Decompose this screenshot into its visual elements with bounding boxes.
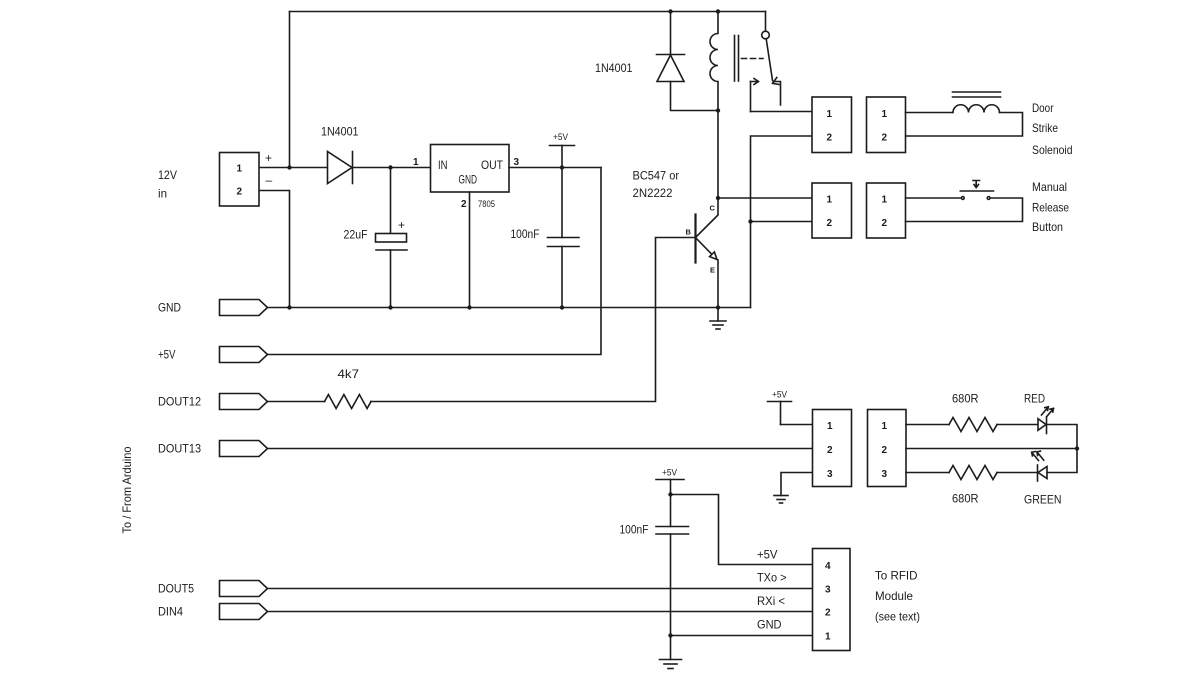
- relay switch blade: [766, 39, 772, 81]
- wire J7 pin1 to R2: [906, 424, 949, 426]
- wire to button: [906, 197, 961, 199]
- wire DOUT12 to resistor: [268, 401, 325, 403]
- svg-text:680R: 680R: [952, 392, 979, 406]
- wire 12V pin2 to ground rail: [259, 191, 290, 308]
- svg-text:2: 2: [827, 133, 833, 144]
- node collector junction: [716, 196, 720, 200]
- wire +5V to J6 pin1: [781, 424, 813, 426]
- svg-text:Door: Door: [1032, 101, 1054, 115]
- svg-text:+5V: +5V: [662, 468, 677, 478]
- svg-text:RED: RED: [1024, 392, 1045, 406]
- resistor R1 4k7: [325, 395, 372, 409]
- svg-text:To / From Arduino: To / From Arduino: [120, 446, 134, 533]
- relay actuation dashed link: [742, 58, 764, 60]
- transistor Q1 collector: [696, 111, 719, 238]
- connector J7 cable side LED: [868, 410, 907, 487]
- wire +5V to RFID pin4: [671, 495, 813, 565]
- LED1 RED: [1038, 419, 1046, 431]
- svg-text:(see text): (see text): [875, 610, 920, 624]
- connector J3 cable side solenoid: [867, 97, 906, 153]
- resistor R3 680R: [949, 466, 997, 480]
- arrow tag DOUT5: [220, 581, 268, 597]
- wire J7 pin2 common: [906, 448, 1077, 450]
- wire R3 to LED2: [997, 472, 1038, 474]
- wire DIN4 row: [268, 611, 813, 613]
- wire button return: [906, 198, 1023, 222]
- svg-text:DOUT5: DOUT5: [158, 582, 194, 596]
- capacitor C3 100nF: [670, 495, 672, 527]
- solenoid core lines: [953, 91, 1001, 93]
- svg-text:–: –: [266, 173, 273, 187]
- svg-text:4: 4: [825, 561, 831, 572]
- svg-text:OUT: OUT: [481, 158, 504, 172]
- svg-text:+5V: +5V: [158, 348, 176, 362]
- wire DOUT13 row: [268, 448, 813, 450]
- svg-text:Solenoid: Solenoid: [1032, 143, 1073, 157]
- svg-text:2: 2: [237, 187, 243, 198]
- svg-text:DIN4: DIN4: [158, 605, 183, 619]
- svg-text:2: 2: [827, 218, 833, 229]
- wire U1 ground pin: [469, 192, 471, 308]
- svg-text:2: 2: [882, 218, 888, 229]
- svg-text:2: 2: [825, 608, 831, 619]
- node junction 12V plus: [287, 165, 291, 169]
- svg-text:1N4001: 1N4001: [595, 61, 633, 75]
- svg-text:+5V: +5V: [772, 390, 787, 400]
- wire LED1 to common: [1047, 425, 1078, 449]
- connector J5 cable side button: [867, 183, 906, 238]
- wire button return: [751, 221, 813, 223]
- ground symbol LED: [774, 495, 788, 497]
- svg-text:C: C: [710, 204, 716, 213]
- wire NO contact to connector: [751, 111, 813, 113]
- LED2 GREEN: [1037, 465, 1039, 481]
- svg-text:1: 1: [413, 157, 419, 168]
- relay core lines: [734, 36, 736, 82]
- wire 12V plus riser: [289, 12, 291, 168]
- node junction LED common: [1075, 446, 1079, 450]
- svg-text:3: 3: [827, 469, 833, 480]
- capacitor C2 100nF: [561, 168, 563, 238]
- svg-text:1: 1: [827, 421, 833, 432]
- svg-text:1: 1: [825, 632, 831, 643]
- svg-text:680R: 680R: [952, 492, 979, 506]
- arrow tag +5V: [220, 347, 268, 363]
- relay NO contact arrow: [751, 79, 759, 85]
- svg-text:2: 2: [882, 445, 888, 456]
- relay NO contact post: [750, 82, 752, 112]
- svg-text:3: 3: [514, 157, 520, 168]
- node junction coil top: [716, 9, 720, 13]
- wire R2 to LED1: [997, 424, 1038, 426]
- node junction flyback diode top: [668, 9, 672, 13]
- svg-text:GND: GND: [459, 173, 478, 187]
- ground symbol RFID: [670, 636, 672, 660]
- wire RFID ground row: [671, 635, 813, 637]
- svg-text:1: 1: [882, 195, 888, 206]
- connector J4 board side button: [812, 183, 852, 238]
- wire ground rail: [268, 307, 751, 309]
- svg-text:RXi <: RXi <: [757, 594, 785, 608]
- arrow tag DOUT13: [220, 441, 268, 457]
- ground return riser to connectors: [751, 136, 813, 308]
- connector J8 RFID module: [813, 549, 851, 651]
- svg-text:GND: GND: [158, 301, 181, 315]
- connector J1 12V in: [220, 153, 260, 207]
- svg-text:4k7: 4k7: [338, 367, 360, 381]
- wire J6 pin3 to ground: [781, 473, 813, 496]
- transistor Q1 emitter: [696, 238, 713, 256]
- wire to solenoid: [906, 112, 953, 114]
- power +5V symbol RFID: [656, 479, 684, 481]
- wire DOUT5 row: [268, 588, 813, 590]
- relay RL1 coil: [710, 12, 718, 111]
- node junction pin2 on ground rail: [287, 305, 291, 309]
- svg-text:E: E: [710, 266, 715, 275]
- svg-text:in: in: [158, 187, 167, 201]
- capacitor C1 22uF: [390, 168, 392, 234]
- svg-text:DOUT13: DOUT13: [158, 442, 201, 456]
- wire +5V drop to arduino row: [268, 168, 602, 355]
- LED2 emission arrows: [1032, 452, 1039, 461]
- svg-text:Release: Release: [1032, 201, 1069, 215]
- connector J6 board side LED: [813, 410, 852, 487]
- wire collector to connector pin1: [718, 197, 812, 199]
- diode D2 1N4001 flyback: [670, 12, 672, 56]
- svg-text:7805: 7805: [478, 199, 495, 210]
- switch SW1 manual release button: [961, 197, 964, 200]
- svg-text:To RFID: To RFID: [875, 569, 918, 583]
- wire diode to regulator: [353, 167, 431, 169]
- svg-text:1: 1: [237, 164, 243, 175]
- wire U1 out rail: [509, 167, 601, 169]
- LED1 emission arrows: [1042, 407, 1049, 415]
- relay common terminal circle: [765, 12, 767, 32]
- diode D1 1N4001: [328, 152, 353, 184]
- svg-text:3: 3: [825, 585, 831, 596]
- transistor Q1 base bar: [694, 215, 696, 263]
- arrow tag DIN4: [220, 604, 268, 620]
- svg-text:BC547 or: BC547 or: [633, 169, 680, 183]
- svg-text:3: 3: [882, 469, 888, 480]
- wire J7 pin3 to R3: [906, 472, 949, 474]
- svg-text:1: 1: [882, 421, 888, 432]
- svg-text:2: 2: [461, 199, 467, 210]
- svg-text:Strike: Strike: [1032, 121, 1058, 135]
- relay blade arrowhead: [773, 78, 780, 85]
- inductor L1 door strike solenoid: [953, 105, 1000, 113]
- svg-text:+5V: +5V: [757, 548, 778, 562]
- svg-text:IN: IN: [438, 158, 448, 172]
- svg-text:+5V: +5V: [553, 132, 568, 142]
- node junction 22uF top: [388, 165, 392, 169]
- svg-text:22uF: 22uF: [344, 228, 368, 242]
- svg-text:1: 1: [827, 109, 833, 120]
- svg-text:1: 1: [882, 109, 888, 120]
- arrow tag DOUT12: [220, 394, 268, 410]
- wire solenoid return: [906, 113, 1023, 137]
- svg-text:100nF: 100nF: [511, 227, 540, 241]
- wire top +12V rail: [290, 11, 766, 13]
- wire R1 to transistor base: [371, 238, 696, 402]
- node junction coil bottom: [716, 108, 720, 112]
- wire 12V pin1 to diode: [259, 167, 328, 169]
- svg-text:Button: Button: [1032, 220, 1063, 234]
- svg-text:GND: GND: [757, 618, 782, 632]
- regulator U1 7805: [431, 145, 510, 193]
- svg-text:DOUT12: DOUT12: [158, 395, 201, 409]
- svg-text:2N2222: 2N2222: [633, 186, 673, 200]
- svg-text:2: 2: [827, 445, 833, 456]
- connector J2 board side solenoid: [812, 97, 852, 153]
- svg-text:12V: 12V: [158, 168, 177, 182]
- power +5V symbol main: [550, 145, 575, 147]
- svg-text:+: +: [398, 218, 405, 232]
- svg-text:1: 1: [827, 195, 833, 206]
- ground symbol under Q1: [717, 308, 719, 322]
- relay NC contact: [774, 82, 781, 106]
- svg-text:Module: Module: [875, 589, 913, 603]
- svg-text:GREEN: GREEN: [1024, 493, 1062, 507]
- wire LED2 to common: [1047, 449, 1077, 473]
- resistor R2 680R: [949, 418, 997, 432]
- svg-text:TXo >: TXo >: [757, 571, 787, 585]
- svg-text:100nF: 100nF: [620, 523, 649, 537]
- svg-text:Manual: Manual: [1032, 180, 1067, 194]
- arrow tag GND: [220, 300, 268, 316]
- svg-text:1N4001: 1N4001: [321, 125, 359, 139]
- svg-text:+: +: [265, 151, 272, 165]
- svg-text:2: 2: [882, 133, 888, 144]
- power +5V symbol LED: [768, 401, 792, 403]
- svg-text:B: B: [686, 228, 692, 237]
